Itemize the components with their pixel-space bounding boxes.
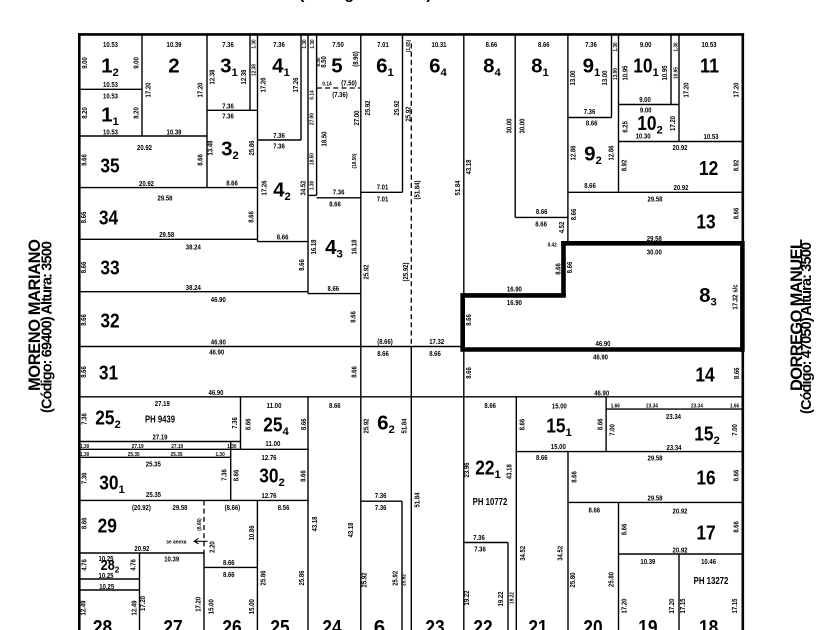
svg-text:12.86: 12.86 <box>568 146 577 161</box>
svg-text:8.66: 8.66 <box>589 506 601 515</box>
thick 8_3 bottom edge <box>460 347 742 352</box>
svg-text:17.20: 17.20 <box>143 83 152 98</box>
se anexa arrow <box>194 538 207 544</box>
svg-text:10.25: 10.25 <box>99 571 114 580</box>
svg-text:2.20: 2.20 <box>208 541 217 553</box>
svg-text:17.20: 17.20 <box>195 83 204 98</box>
svg-text:51.84: 51.84 <box>412 492 421 508</box>
svg-text:1.30: 1.30 <box>310 39 316 48</box>
wire: parcel 4_3 bottom <box>308 293 361 295</box>
svg-text:20: 20 <box>583 616 602 630</box>
svg-text:(51.84): (51.84) <box>412 180 421 199</box>
wire: parcel 8_1 bottom <box>515 216 568 218</box>
svg-text:15.00: 15.00 <box>551 442 566 451</box>
svg-text:8.66: 8.66 <box>277 233 289 242</box>
wire: parcel 4_2 bottom <box>258 241 309 243</box>
svg-text:38.24: 38.24 <box>186 243 202 252</box>
svg-text:(20.92): (20.92) <box>132 503 151 512</box>
wire: strip bottom cap <box>308 194 317 196</box>
svg-text:25.35: 25.35 <box>171 452 184 458</box>
svg-text:29.58: 29.58 <box>158 194 173 203</box>
svg-text:34.52: 34.52 <box>518 546 527 561</box>
svg-text:10.39: 10.39 <box>167 40 182 49</box>
thick 8_3 notch west edge lower <box>460 293 465 349</box>
wire: outer border top <box>78 33 744 36</box>
svg-text:10.53: 10.53 <box>702 40 717 49</box>
svg-text:13.00: 13.00 <box>613 68 619 80</box>
svg-text:46.90: 46.90 <box>209 348 224 357</box>
svg-text:1.30: 1.30 <box>80 444 89 450</box>
svg-text:25.80: 25.80 <box>606 572 615 587</box>
svg-text:10.53: 10.53 <box>103 80 118 89</box>
svg-text:4.76: 4.76 <box>129 559 138 571</box>
svg-text:8.66: 8.66 <box>223 570 235 579</box>
svg-text:7.36: 7.36 <box>222 102 234 111</box>
svg-text:12.76: 12.76 <box>262 453 277 462</box>
wire: parcel 23 left edge <box>410 347 412 630</box>
dashed notch in parcel 5 <box>317 87 361 89</box>
svg-text:15.00: 15.00 <box>247 599 256 614</box>
svg-text:8.66: 8.66 <box>429 349 441 358</box>
wire: parcel 3_1 right edge <box>249 35 251 110</box>
thick 8_3 top edge <box>561 241 743 246</box>
svg-text:6.25: 6.25 <box>621 121 630 133</box>
svg-text:29.58: 29.58 <box>648 494 663 503</box>
svg-text:10.95: 10.95 <box>674 66 680 79</box>
wire: parcel 6 notch <box>361 500 402 502</box>
wire: parcel 3_1 bottom <box>207 109 258 111</box>
svg-text:20.92: 20.92 <box>673 546 688 555</box>
svg-text:25.86: 25.86 <box>247 141 256 156</box>
wire: parcel 30_1/30_2 divider <box>230 442 232 501</box>
wire: parcel 4_1 right edge <box>300 35 302 140</box>
svg-text:19.22: 19.22 <box>496 592 505 607</box>
wire: parcel 17 bottom <box>619 553 745 555</box>
svg-text:8.66: 8.66 <box>586 119 598 128</box>
thick 8_3 notch top edge <box>464 293 566 298</box>
svg-text:17.32 s/c: 17.32 s/c <box>730 284 739 309</box>
svg-text:17.26: 17.26 <box>259 181 268 196</box>
wire: parcel 5/6 long divider <box>360 35 362 630</box>
svg-text:1.30: 1.30 <box>216 452 225 458</box>
svg-text:23.34: 23.34 <box>646 404 659 410</box>
svg-text:33: 33 <box>100 257 119 280</box>
wire: parcel 35-3_2 bottom <box>79 187 258 189</box>
svg-text:25.92: 25.92 <box>361 419 370 434</box>
svg-text:7.36: 7.36 <box>220 469 229 481</box>
svg-text:46.90: 46.90 <box>593 353 608 362</box>
svg-text:(8.90): (8.90) <box>351 51 360 67</box>
svg-text:10.31: 10.31 <box>432 40 447 49</box>
wire: parcel 31/14 bottom long line <box>79 396 744 398</box>
svg-text:12: 12 <box>699 157 718 180</box>
wire: parcel 19/18 divider <box>678 554 680 630</box>
svg-text:31: 31 <box>99 362 118 385</box>
thick 8_3 notch west edge upper <box>561 241 566 295</box>
svg-text:7.01: 7.01 <box>377 40 389 49</box>
svg-text:8.66: 8.66 <box>79 154 88 166</box>
svg-text:10.39: 10.39 <box>164 555 179 564</box>
svg-text:23.34: 23.34 <box>666 412 682 421</box>
svg-text:8.66: 8.66 <box>80 518 89 530</box>
svg-text:8.66: 8.66 <box>349 366 358 378</box>
wire: thin row 1.66-23.34 bottom <box>606 408 744 410</box>
wire: parcel 28_1 top <box>79 589 140 591</box>
dashed provisional line (51.84) <box>410 44 412 347</box>
wire: parcel 6_1 bottom <box>361 191 403 193</box>
svg-text:10.95: 10.95 <box>660 66 669 81</box>
svg-text:8.66: 8.66 <box>536 453 548 462</box>
svg-text:8.66: 8.66 <box>535 220 547 229</box>
wire: parcel 21/16-20 divider <box>567 452 569 630</box>
svg-text:25.35: 25.35 <box>146 490 161 499</box>
wire: parcel 34 bottom <box>79 238 258 240</box>
wire: parcel 28_2 bottom <box>79 578 140 580</box>
svg-text:1.30: 1.30 <box>227 444 236 450</box>
wire: strip-4_2 right divider <box>307 35 309 294</box>
wire: parcel 26/25 divider <box>256 500 258 630</box>
svg-text:20.92: 20.92 <box>137 143 152 152</box>
svg-text:46.90: 46.90 <box>596 339 611 348</box>
svg-text:18.50: 18.50 <box>310 153 316 165</box>
svg-text:7.36: 7.36 <box>230 417 239 429</box>
svg-text:8.66: 8.66 <box>232 470 241 482</box>
svg-text:12.76: 12.76 <box>262 491 277 500</box>
svg-text:10.53: 10.53 <box>103 128 118 137</box>
svg-text:17.26: 17.26 <box>258 78 267 93</box>
svg-text:11: 11 <box>700 55 719 78</box>
wire: parcel 8_4/8_1 divider <box>514 35 516 217</box>
svg-text:7.36: 7.36 <box>222 40 234 49</box>
svg-text:7.01: 7.01 <box>377 183 389 192</box>
wire: parcel 16 bottom <box>568 501 744 503</box>
svg-text:25.86: 25.86 <box>259 571 268 586</box>
svg-text:7.36: 7.36 <box>273 131 285 140</box>
wire: strip/4 left divider <box>257 35 259 242</box>
svg-text:1.30: 1.30 <box>613 42 619 51</box>
svg-text:43.18: 43.18 <box>464 160 473 175</box>
svg-text:46.90: 46.90 <box>211 338 226 347</box>
svg-text:25.92: 25.92 <box>361 265 370 280</box>
svg-text:8.66: 8.66 <box>329 401 341 410</box>
svg-text:8.66: 8.66 <box>553 263 562 275</box>
wire: parcel 10_1/10_2 divider <box>619 104 680 106</box>
svg-text:7.36: 7.36 <box>584 107 596 116</box>
svg-text:13: 13 <box>696 211 715 234</box>
svg-text:11.00: 11.00 <box>265 439 280 448</box>
svg-text:29: 29 <box>98 515 117 538</box>
svg-text:8.66: 8.66 <box>328 284 340 293</box>
svg-text:13.48: 13.48 <box>205 141 214 156</box>
svg-text:32: 32 <box>100 310 119 333</box>
svg-text:30.00: 30.00 <box>647 248 662 257</box>
svg-text:(7.36): (7.36) <box>332 90 348 99</box>
svg-text:43.18: 43.18 <box>310 517 319 532</box>
svg-text:16: 16 <box>696 467 715 490</box>
wire: parcel 32 bottom long line <box>79 346 464 348</box>
svg-text:17.15: 17.15 <box>678 599 687 614</box>
svg-text:20.92: 20.92 <box>673 143 688 152</box>
svg-text:23.34: 23.34 <box>691 404 704 410</box>
wire: parcel 1-2/35 divider <box>79 135 207 137</box>
svg-text:17.20: 17.20 <box>681 83 690 98</box>
svg-text:25: 25 <box>270 616 289 630</box>
wire: outer border right <box>741 33 744 630</box>
svg-text:8.66: 8.66 <box>223 558 235 567</box>
svg-text:8.66: 8.66 <box>732 368 741 380</box>
svg-text:25.92: 25.92 <box>390 571 399 586</box>
svg-text:23.34: 23.34 <box>667 443 683 452</box>
svg-text:7.36: 7.36 <box>473 533 485 542</box>
dashed annex line <box>203 500 205 553</box>
svg-text:15.00: 15.00 <box>552 402 567 411</box>
svg-text:10.39: 10.39 <box>167 128 182 137</box>
wire: parcel 33 bottom <box>79 291 308 293</box>
wire: parcel 9_1 right edge <box>611 35 613 118</box>
svg-text:17.20: 17.20 <box>619 599 628 614</box>
wire: parcel 22_1/21 divider <box>515 397 517 630</box>
svg-text:6: 6 <box>374 616 385 630</box>
wire: parcel 6 right edge <box>401 501 403 630</box>
svg-text:8.66: 8.66 <box>299 418 308 430</box>
svg-text:51.84: 51.84 <box>399 418 408 434</box>
svg-text:8.66: 8.66 <box>226 179 238 188</box>
svg-text:20.92: 20.92 <box>139 179 154 188</box>
svg-text:7.36: 7.36 <box>222 112 234 121</box>
svg-text:8.66: 8.66 <box>731 208 740 220</box>
wire: parcel 9/12 divider <box>618 35 620 192</box>
wire: parcel 1_2/1_1 divider <box>79 88 142 90</box>
svg-text:25.92: 25.92 <box>392 101 401 116</box>
svg-text:(Código: 47060) Altura: 3500: (Código: 47060) Altura: 3500 <box>299 0 539 3</box>
svg-text:7.36: 7.36 <box>375 503 387 512</box>
svg-text:1.30: 1.30 <box>252 39 258 48</box>
svg-text:8.20: 8.20 <box>131 107 140 119</box>
wire: parcel 29 bottom <box>79 552 204 554</box>
svg-text:25.86: 25.86 <box>297 571 306 586</box>
svg-text:8.66: 8.66 <box>79 212 88 224</box>
wire: parcel 28/27 divider <box>139 553 141 630</box>
svg-text:25.92: 25.92 <box>360 573 369 588</box>
wire: parcel 30 row bottom <box>79 499 309 501</box>
svg-text:7.36: 7.36 <box>273 142 285 151</box>
svg-text:20.92: 20.92 <box>674 183 689 192</box>
svg-text:25.80: 25.80 <box>568 573 577 588</box>
svg-text:(18.50): (18.50) <box>352 153 358 168</box>
svg-text:8.66: 8.66 <box>569 209 578 221</box>
svg-text:24: 24 <box>322 616 342 630</box>
svg-text:7.00: 7.00 <box>730 424 739 436</box>
svg-text:8.92: 8.92 <box>731 160 740 172</box>
wire: parcel 6_1 right edge <box>402 35 404 192</box>
svg-text:12.86: 12.86 <box>606 146 615 161</box>
svg-text:1.30: 1.30 <box>80 452 89 458</box>
svg-text:(Código: 69400) Altura: 3500: (Código: 69400) Altura: 3500 <box>40 241 56 413</box>
svg-text:7.00: 7.00 <box>608 424 617 436</box>
svg-text:(1.65): (1.65) <box>406 40 412 52</box>
wire: parcel 4_1 bottom <box>258 139 302 141</box>
svg-text:21: 21 <box>528 616 547 630</box>
svg-text:10.95: 10.95 <box>621 66 630 81</box>
svg-text:8.66: 8.66 <box>79 314 88 326</box>
svg-text:7.36: 7.36 <box>273 40 285 49</box>
svg-text:1.66: 1.66 <box>611 404 621 410</box>
svg-text:10.53: 10.53 <box>103 40 118 49</box>
svg-text:13.00: 13.00 <box>568 71 577 86</box>
svg-text:29.58: 29.58 <box>648 454 663 463</box>
svg-text:0.14: 0.14 <box>310 90 316 100</box>
svg-text:7.36: 7.36 <box>333 188 345 197</box>
svg-text:PH 9439: PH 9439 <box>145 415 175 426</box>
svg-text:25.35: 25.35 <box>146 460 161 469</box>
wire: thin row divider / 25_4 bottom <box>79 448 309 450</box>
wire: parcel 11 left edge <box>678 35 680 142</box>
wire: parcel 25_2/25_4 divider <box>240 397 242 450</box>
svg-text:29.58: 29.58 <box>159 230 174 239</box>
svg-text:7.36: 7.36 <box>80 473 89 485</box>
svg-text:8.66: 8.66 <box>79 366 88 378</box>
svg-text:17.20: 17.20 <box>732 83 741 98</box>
svg-text:17.20: 17.20 <box>138 596 147 611</box>
svg-text:10.39: 10.39 <box>640 557 655 566</box>
svg-text:0.42: 0.42 <box>548 243 557 249</box>
wire: parcel 8_1/9 divider <box>567 35 569 243</box>
svg-text:7.50: 7.50 <box>332 40 344 49</box>
svg-text:19.22: 19.22 <box>462 591 471 606</box>
svg-text:26: 26 <box>222 616 241 630</box>
svg-text:34.52: 34.52 <box>298 181 307 196</box>
svg-text:8.66: 8.66 <box>464 314 473 326</box>
svg-text:7.36: 7.36 <box>585 40 597 49</box>
svg-text:8.56: 8.56 <box>278 503 290 512</box>
svg-text:(25.92): (25.92) <box>401 262 410 281</box>
svg-text:8.66: 8.66 <box>348 311 357 323</box>
svg-text:8.66: 8.66 <box>329 200 341 209</box>
svg-text:8.66: 8.66 <box>565 262 574 274</box>
wire: parcel 5 bottom <box>317 197 361 199</box>
wire: parcel 25_2 bottom <box>79 441 241 443</box>
svg-text:(8.66): (8.66) <box>197 518 203 530</box>
svg-text:7.36: 7.36 <box>80 413 89 425</box>
svg-text:8.66: 8.66 <box>464 367 473 379</box>
svg-text:46.90: 46.90 <box>594 389 609 398</box>
svg-text:19.22: 19.22 <box>510 592 516 604</box>
svg-text:17: 17 <box>696 522 715 545</box>
svg-text:8.66: 8.66 <box>731 470 740 482</box>
svg-text:0.14: 0.14 <box>322 82 332 88</box>
svg-text:8.66: 8.66 <box>596 419 605 431</box>
wire: parcel 26 top <box>204 566 257 568</box>
svg-text:34.52: 34.52 <box>555 546 564 561</box>
svg-text:8.66: 8.66 <box>518 419 527 431</box>
svg-text:51.84: 51.84 <box>453 180 462 196</box>
svg-text:19: 19 <box>638 616 657 630</box>
svg-text:27.00: 27.00 <box>310 113 316 125</box>
svg-text:17.32: 17.32 <box>429 337 444 346</box>
svg-text:8.66: 8.66 <box>536 207 548 216</box>
svg-text:38.24: 38.24 <box>186 283 202 292</box>
svg-text:27.19: 27.19 <box>171 444 184 450</box>
svg-text:7.36: 7.36 <box>375 491 387 500</box>
svg-text:10.53: 10.53 <box>103 92 118 101</box>
svg-text:27.19: 27.19 <box>132 444 145 450</box>
svg-text:27.19: 27.19 <box>155 399 170 408</box>
svg-text:17.20: 17.20 <box>193 597 202 612</box>
svg-text:27.00: 27.00 <box>352 111 361 126</box>
svg-text:(Código: 47050) Altura: 3500: (Código: 47050) Altura: 3500 <box>799 242 815 414</box>
svg-text:PH 10772: PH 10772 <box>473 497 508 508</box>
svg-text:8.66: 8.66 <box>195 154 204 166</box>
svg-text:9.00: 9.00 <box>640 40 652 49</box>
svg-text:8.66: 8.66 <box>731 521 740 533</box>
svg-text:8.66: 8.66 <box>243 419 252 431</box>
svg-text:30.00: 30.00 <box>517 119 526 134</box>
wire: parcel 15_1/15_2 divider <box>605 397 607 452</box>
svg-text:17.20: 17.20 <box>667 599 676 614</box>
svg-text:9.00: 9.00 <box>639 95 651 104</box>
wire: parcel 5 left edge <box>316 35 318 195</box>
wire: parcel 2-35/3 divider <box>206 35 208 188</box>
svg-text:(8.66): (8.66) <box>377 337 393 346</box>
svg-text:18: 18 <box>699 616 718 630</box>
wire: parcel 27/26 divider <box>203 553 205 630</box>
svg-text:25.92: 25.92 <box>403 107 412 122</box>
svg-text:4.52: 4.52 <box>557 222 566 234</box>
wire: parcel 10_1 right edge <box>670 35 672 105</box>
svg-text:5: 5 <box>331 55 342 78</box>
thick 8_3 east edge <box>740 241 745 352</box>
svg-text:8.66: 8.66 <box>538 40 550 49</box>
svg-text:2: 2 <box>168 55 179 78</box>
svg-text:35: 35 <box>100 155 119 178</box>
wire: parcel 1/2 divider <box>141 35 143 136</box>
wire: parcel 9_2-12/13 divider <box>568 191 744 193</box>
svg-text:29.58: 29.58 <box>648 195 663 204</box>
svg-text:9.00: 9.00 <box>131 57 140 69</box>
svg-text:27.19: 27.19 <box>153 433 168 442</box>
svg-text:46.90: 46.90 <box>209 388 224 397</box>
svg-text:1.30: 1.30 <box>674 42 680 51</box>
svg-text:16.18: 16.18 <box>349 240 358 255</box>
svg-text:10.46: 10.46 <box>701 557 716 566</box>
svg-text:9.00: 9.00 <box>80 57 89 69</box>
svg-text:20.92: 20.92 <box>673 507 688 516</box>
svg-text:8.66: 8.66 <box>619 524 628 536</box>
svg-text:8.92: 8.92 <box>619 160 628 172</box>
svg-text:14: 14 <box>695 364 715 387</box>
svg-text:46.90: 46.90 <box>211 295 226 304</box>
svg-text:7.36: 7.36 <box>474 545 486 554</box>
wire: parcel 24 left edge <box>307 397 309 630</box>
wire: parcel 6_4/8_4 long divider <box>463 35 465 630</box>
svg-text:43.18: 43.18 <box>346 523 355 538</box>
svg-text:8.20: 8.20 <box>80 107 89 119</box>
svg-text:8.66: 8.66 <box>484 401 496 410</box>
svg-text:13.00: 13.00 <box>600 71 609 86</box>
svg-text:8.66: 8.66 <box>569 471 578 483</box>
svg-text:12.38: 12.38 <box>252 63 258 76</box>
svg-text:12.38: 12.38 <box>239 70 248 85</box>
wire: parcel 22 right edge <box>507 543 509 630</box>
svg-text:1.30: 1.30 <box>310 181 316 190</box>
svg-text:16.18: 16.18 <box>309 240 318 255</box>
svg-text:43.18: 43.18 <box>505 464 514 479</box>
svg-text:8.66: 8.66 <box>79 262 88 274</box>
svg-text:10.53: 10.53 <box>704 132 719 141</box>
svg-text:27: 27 <box>163 616 182 630</box>
wire: parcel 15 row bottom <box>516 451 744 453</box>
svg-text:17.20: 17.20 <box>668 116 677 131</box>
